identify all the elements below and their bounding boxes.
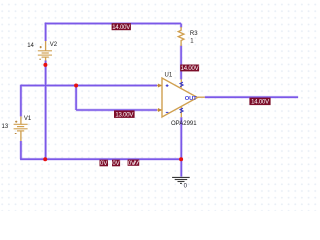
svg-text:OUT: OUT xyxy=(185,96,197,102)
svg-text:14.00V: 14.00V xyxy=(181,66,199,72)
svg-text:0V: 0V xyxy=(100,161,107,167)
svg-text:OPA2991: OPA2991 xyxy=(171,121,197,127)
svg-text:14: 14 xyxy=(27,43,34,49)
svg-text:V1: V1 xyxy=(24,116,32,122)
svg-text:14.00V: 14.00V xyxy=(251,100,269,106)
svg-text:V2: V2 xyxy=(50,42,58,48)
svg-text:R3: R3 xyxy=(190,31,198,37)
svg-text:0V: 0V xyxy=(112,161,119,167)
svg-text:13.00V: 13.00V xyxy=(115,113,133,119)
svg-text:U1: U1 xyxy=(165,73,173,79)
svg-text:13: 13 xyxy=(2,124,9,130)
svg-text:14.00V: 14.00V xyxy=(112,25,130,31)
